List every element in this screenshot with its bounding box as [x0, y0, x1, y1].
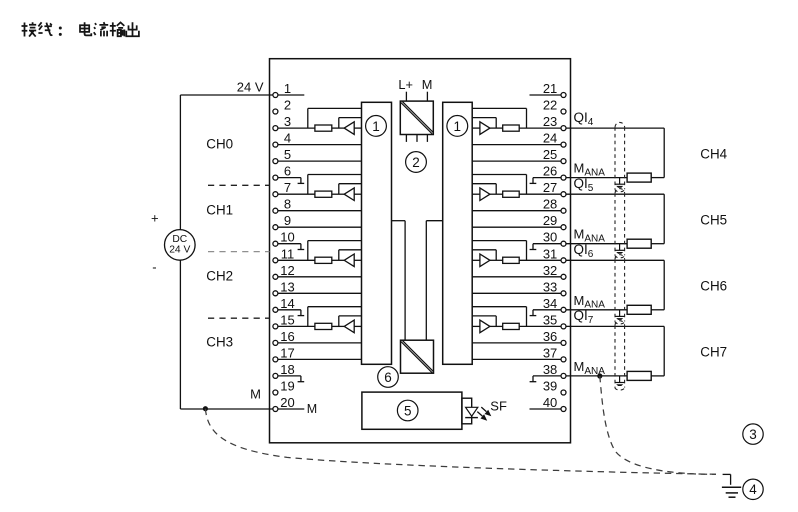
ground shield CH4 [615, 178, 624, 188]
pin 20 terminal [273, 395, 295, 412]
wire pin 40 stub [530, 408, 561, 410]
svg-text:CH5: CH5 [700, 212, 727, 227]
pin 6 terminal [273, 164, 291, 181]
earth ground symbol [722, 474, 741, 497]
wire pin 31 output line CH6 [472, 259, 561, 261]
wire pin 25 to DAC block [472, 160, 561, 162]
wire internal bus right [426, 221, 442, 341]
wire QI7 to load [566, 326, 664, 376]
pin 15 terminal [273, 312, 295, 329]
switch contact pin 6 [278, 178, 304, 184]
amplifier CH7 (right) [480, 320, 490, 333]
node QI5 label [574, 176, 594, 194]
svg-text:24 V: 24 V [169, 245, 190, 256]
wire pin 5 to DAC block [278, 160, 362, 162]
wire sense loop CH7 [472, 307, 526, 327]
pin 28 terminal [543, 197, 566, 214]
module outline box [270, 59, 571, 443]
label 24 V [237, 79, 264, 94]
svg-text:15: 15 [280, 312, 294, 327]
svg-text:13: 13 [280, 279, 294, 294]
circled 6 [378, 367, 399, 388]
circled 5 [397, 400, 418, 421]
svg-text:9: 9 [284, 213, 291, 228]
svg-text:+: + [151, 210, 159, 225]
pin 7 terminal [273, 180, 291, 197]
shield cable dashed CH4 [615, 122, 625, 191]
wire pin 16 to DAC block [278, 342, 362, 344]
svg-text:30: 30 [543, 230, 557, 245]
DC 24V source G1 [165, 230, 196, 261]
svg-text:19: 19 [280, 379, 294, 394]
wire sense loop CH2 [308, 241, 362, 261]
resistor shunt CH4 [503, 125, 520, 131]
circled 3 [743, 424, 763, 444]
wire pin 24 to DAC block [472, 144, 561, 146]
svg-text:11: 11 [281, 246, 295, 261]
svg-text:CH7: CH7 [700, 345, 727, 360]
ground shield CH5 [615, 244, 624, 254]
wire feedback CH2 [339, 250, 362, 260]
pin 14 terminal [273, 296, 295, 313]
label CH1 [206, 203, 233, 218]
wire pin 13 to DAC block [278, 292, 362, 294]
svg-text:L+: L+ [398, 77, 413, 92]
svg-text:8: 8 [284, 197, 291, 212]
pin 21 terminal [543, 81, 566, 98]
wire pin 17 to DAC block [278, 358, 362, 360]
power supply unit box [400, 101, 433, 134]
wire pin 29 to DAC block [472, 226, 561, 228]
resistor load CH5 [627, 239, 651, 248]
wire pin 23 output line CH4 [472, 127, 561, 129]
circled 1 right [447, 116, 468, 137]
wire QI6 to load [566, 260, 664, 310]
pin 37 terminal [543, 345, 566, 362]
svg-text:20: 20 [280, 395, 294, 410]
LED arrows [477, 407, 491, 421]
pin 17 terminal [273, 345, 295, 362]
pin 25 terminal [543, 147, 566, 164]
pin 13 terminal [273, 279, 295, 296]
wire MANA CH4 [566, 177, 664, 179]
svg-text:M: M [307, 402, 317, 416]
svg-text:39: 39 [543, 379, 557, 394]
pin 27 terminal [543, 180, 566, 197]
resistor shunt CH6 [503, 257, 520, 263]
svg-text:M: M [250, 387, 261, 402]
pin 9 terminal [273, 213, 291, 230]
wire pin 8 to DAC block [278, 210, 362, 212]
circled 2 [406, 152, 427, 173]
resistor shunt CH7 [503, 323, 520, 329]
svg-text:38: 38 [543, 362, 557, 377]
shield cable dashed CH6 [615, 255, 625, 324]
wire MANA CH6 [566, 309, 664, 311]
svg-text:36: 36 [543, 329, 557, 344]
title text 接线： 电流输出 [22, 22, 139, 36]
svg-text:4: 4 [749, 482, 757, 497]
svg-text:QI6: QI6 [574, 242, 594, 260]
DAC block right [443, 102, 473, 364]
node MANA label CH7 [574, 359, 606, 377]
wire feedback CH3 [339, 316, 362, 327]
svg-text:QI5: QI5 [574, 176, 594, 194]
svg-text:5: 5 [284, 147, 291, 162]
wire L+ rail vertical [179, 95, 181, 230]
svg-text:3: 3 [284, 114, 291, 129]
switch contact pin 38 [530, 376, 561, 382]
wire pin 9 to DAC block [278, 226, 362, 228]
pin 31 terminal [543, 246, 566, 263]
pin 40 terminal [543, 395, 566, 412]
svg-text:23: 23 [543, 114, 557, 129]
pin 39 terminal [543, 379, 566, 396]
wire pin 35 output line CH7 [472, 325, 561, 327]
svg-text:1: 1 [372, 119, 380, 134]
channel separator dashed line 3 [208, 317, 270, 319]
circled 4 [743, 479, 763, 499]
junction dot on M wire [203, 406, 208, 411]
amplifier CH1 (left) [344, 188, 354, 201]
ground shield CH6 [615, 310, 624, 320]
pin 22 terminal [543, 98, 566, 115]
pin 8 terminal [273, 197, 291, 214]
wire dashed equipotential from MANA [600, 376, 716, 474]
node MANA label CH6 [574, 293, 606, 311]
svg-text:14: 14 [280, 296, 294, 311]
amplifier CH6 (right) [480, 254, 490, 267]
wire pin 7 output line CH1 [278, 193, 362, 195]
wire pin 15 output line CH3 [278, 325, 362, 327]
svg-text:DC: DC [172, 234, 187, 245]
svg-text:6: 6 [284, 164, 291, 179]
svg-text:CH6: CH6 [700, 278, 727, 293]
ground shield CH7 [615, 376, 624, 386]
svg-text:34: 34 [543, 296, 557, 311]
channel separator dashed line 2 [208, 251, 270, 253]
wire QI5 to load [566, 194, 664, 244]
pin 3 terminal [273, 114, 291, 131]
resistor shunt CH0 [315, 125, 332, 131]
node QI4 label [574, 110, 594, 128]
resistor shunt CH5 [503, 191, 520, 197]
wire feedback CH6 [472, 250, 496, 260]
svg-text:5: 5 [404, 403, 412, 418]
switch contact pin 14 [278, 310, 304, 316]
channel separator dashed line 1 [208, 184, 270, 186]
wire 24V rail top [180, 94, 304, 96]
amplifier CH3 (left) [344, 320, 354, 333]
wire pin 36 to DAC block [472, 342, 561, 344]
wire feedback CH1 [339, 184, 362, 195]
label M (supply) [422, 77, 433, 92]
svg-text:16: 16 [280, 329, 294, 344]
controller box [362, 392, 462, 429]
svg-text:1: 1 [454, 119, 462, 134]
wire feedback CH5 [472, 184, 496, 195]
label M inside [307, 402, 317, 416]
amplifier CH5 (right) [480, 188, 490, 201]
resistor shunt CH1 [315, 191, 332, 197]
node MANA label CH4 [574, 161, 606, 179]
wire pin 3 output line CH0 [278, 127, 362, 129]
shield cable dashed CH5 [615, 189, 625, 258]
amplifier CH0 (left) [344, 122, 354, 135]
node MANA label CH5 [574, 227, 606, 245]
svg-text:CH3: CH3 [206, 335, 233, 350]
svg-text:33: 33 [543, 279, 557, 294]
label CH3 [206, 335, 233, 350]
wire feedback CH4 [472, 118, 496, 129]
wire pin 12 to DAC block [278, 276, 362, 278]
LED holder box [462, 398, 472, 424]
pin 4 terminal [273, 131, 291, 148]
svg-text:2: 2 [412, 155, 420, 170]
pin 30 terminal [543, 230, 566, 247]
svg-text:1: 1 [284, 81, 291, 96]
switch contact pin 34 [530, 310, 561, 316]
isolation block box [401, 340, 434, 373]
svg-text:CH0: CH0 [206, 136, 233, 151]
LED SF diode [465, 407, 478, 417]
junction dot MANA pin 38 [597, 373, 602, 378]
svg-text:2: 2 [284, 98, 291, 113]
svg-text:17: 17 [280, 345, 294, 360]
svg-text:25: 25 [543, 147, 557, 162]
svg-text:QI7: QI7 [574, 308, 594, 326]
svg-text:CH1: CH1 [206, 203, 233, 218]
svg-text:21: 21 [543, 81, 557, 96]
svg-text:6: 6 [384, 370, 392, 385]
wire sense loop CH5 [472, 175, 526, 195]
svg-text:CH2: CH2 [206, 269, 233, 284]
wire pin 28 to DAC block [472, 210, 561, 212]
svg-text:QI4: QI4 [574, 110, 594, 128]
label CH4 [700, 146, 727, 161]
resistor load CH7 [627, 371, 651, 380]
label CH0 [206, 136, 233, 151]
label CH5 [700, 212, 727, 227]
label + [151, 210, 159, 225]
amplifier CH2 (left) [344, 254, 354, 267]
label CH2 [206, 269, 233, 284]
svg-text:18: 18 [280, 362, 294, 377]
svg-text:SF: SF [490, 398, 507, 413]
wire pin 32 to DAC block [472, 276, 561, 278]
pin 34 terminal [543, 296, 566, 313]
pin 23 terminal [543, 114, 566, 131]
wire MANA CH5 [566, 243, 664, 245]
node QI6 label [574, 242, 594, 260]
wire pin 4 to DAC block [278, 144, 362, 146]
pin 12 terminal [273, 263, 295, 280]
wire QI4 to load [566, 128, 664, 178]
pin 10 terminal [273, 230, 295, 247]
pin 16 terminal [273, 329, 295, 346]
label CH6 [700, 278, 727, 293]
svg-text:3: 3 [749, 427, 757, 442]
svg-text:26: 26 [543, 164, 557, 179]
pin L+ lead [405, 92, 407, 101]
switch contact pin 26 [530, 178, 561, 184]
DAC block left [362, 102, 392, 364]
wire pin 33 to DAC block [472, 292, 561, 294]
resistor load CH4 [627, 173, 651, 182]
pin 11 terminal [273, 246, 294, 263]
svg-text:35: 35 [543, 312, 557, 327]
label L+ [398, 77, 413, 92]
wire pin 37 to DAC block [472, 358, 561, 360]
wire sense loop CH0 [308, 108, 362, 128]
pin 5 terminal [273, 147, 291, 164]
wire pin 21 stub [530, 94, 561, 96]
pin 29 terminal [543, 213, 566, 230]
pin 36 terminal [543, 329, 566, 346]
wire pin 11 output line CH2 [278, 259, 362, 261]
pin 2 terminal [273, 98, 291, 115]
pin 18 terminal [273, 362, 295, 379]
pin 24 terminal [543, 131, 566, 148]
svg-text:40: 40 [543, 395, 557, 410]
label SF [490, 398, 507, 413]
resistor shunt CH3 [315, 323, 332, 329]
wire sense loop CH3 [308, 307, 362, 327]
wire feedback CH7 [472, 316, 496, 327]
wire pin 27 output line CH5 [472, 193, 561, 195]
wire MANA CH7 [566, 375, 664, 377]
wire sense loop CH6 [472, 241, 526, 261]
pin 38 terminal [543, 362, 566, 379]
pin 1 terminal [273, 81, 291, 98]
svg-text:32: 32 [543, 263, 557, 278]
svg-text:22: 22 [543, 98, 557, 113]
svg-text:29: 29 [543, 213, 557, 228]
node QI7 label [574, 308, 594, 326]
wire feedback CH0 [339, 118, 362, 129]
switch contact pin 10 [278, 244, 304, 250]
pin 33 terminal [543, 279, 566, 296]
svg-text:27: 27 [543, 180, 557, 195]
amplifier CH4 (right) [480, 122, 490, 135]
wire sense loop CH4 [472, 108, 526, 128]
pin 35 terminal [543, 312, 566, 329]
pin 26 terminal [543, 164, 566, 181]
pin 19 terminal [273, 379, 295, 396]
switch contact pin 30 [530, 244, 561, 250]
svg-text:M: M [422, 77, 433, 92]
wire dashed equipotential from M [205, 409, 716, 475]
wire pin 20 stub M [278, 408, 304, 410]
svg-text:4: 4 [284, 131, 291, 146]
pin 32 terminal [543, 263, 566, 280]
svg-text:37: 37 [543, 345, 557, 360]
svg-text:24 V: 24 V [237, 79, 264, 94]
shield cable dashed CH7 [615, 321, 625, 390]
label CH7 [700, 345, 727, 360]
pin M lead [426, 92, 428, 101]
svg-text:24: 24 [543, 131, 557, 146]
svg-text:-: - [152, 260, 156, 275]
svg-text:10: 10 [280, 230, 294, 245]
resistor load CH6 [627, 305, 651, 314]
svg-text:CH4: CH4 [700, 146, 727, 161]
circled 1 left [366, 116, 387, 137]
wire internal bus left [392, 221, 406, 341]
svg-text:28: 28 [543, 197, 557, 212]
power supply bottom leads [406, 135, 427, 142]
svg-text:12: 12 [280, 263, 294, 278]
label - [152, 260, 156, 275]
svg-text:31: 31 [543, 246, 557, 261]
switch contact pin 18 [278, 376, 304, 382]
wire M rail to terminal 20 [180, 408, 272, 410]
wire M rail vertical [179, 260, 181, 409]
wire sense loop CH1 [308, 175, 362, 195]
svg-text:7: 7 [284, 180, 291, 195]
resistor shunt CH2 [315, 257, 332, 263]
label M outside [250, 387, 261, 402]
